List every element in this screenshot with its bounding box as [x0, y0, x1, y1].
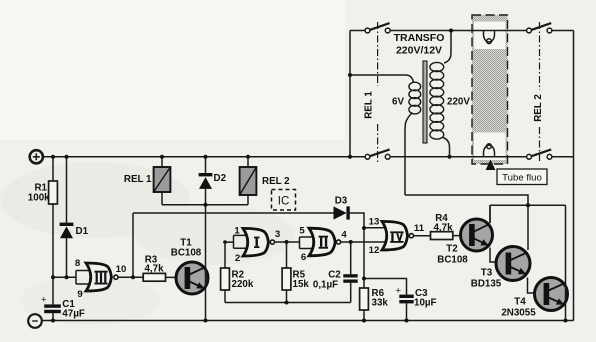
node 220V bottom junction	[448, 155, 452, 159]
svg-text:10: 10	[116, 264, 127, 275]
svg-text:TRANSFO: TRANSFO	[394, 32, 445, 44]
transformer 6V primary winding	[350, 75, 421, 195]
svg-text:10µF: 10µF	[414, 298, 437, 309]
node rail R1	[51, 155, 55, 159]
NOR gate III	[86, 263, 118, 291]
label T1	[171, 238, 202, 259]
fluorescent tube body	[472, 15, 508, 164]
wire gate II output to gate IV pin12	[341, 241, 387, 243]
node mains left vertical top of 6V	[348, 73, 352, 77]
resistor R4	[414, 232, 470, 240]
node C3 bottom rail	[405, 319, 409, 323]
node R5 bottom	[285, 301, 289, 305]
resistor R5	[282, 268, 291, 290]
wire D3 cathode to pin13 node	[350, 213, 387, 288]
svg-text:9: 9	[77, 289, 82, 300]
wire collector bus	[490, 205, 566, 223]
svg-text:33k: 33k	[372, 298, 389, 309]
node gate III input / R1 line	[51, 275, 55, 279]
resistor R2	[221, 268, 230, 290]
node collector bus / T3	[526, 203, 530, 207]
wire oscillator bottom	[225, 302, 351, 304]
diode D1	[60, 223, 74, 239]
node R6 bottom rail	[362, 319, 366, 323]
node gate III output	[131, 275, 135, 279]
wire gate I output to gate II input	[275, 237, 312, 249]
REL2 linkage dash-dot line	[539, 22, 541, 162]
svg-text:REL 2: REL 2	[533, 94, 544, 122]
svg-text:0,1µF: 0,1µF	[313, 280, 338, 291]
wire gate III input feed	[53, 271, 90, 285]
wire 0V bottom rail	[42, 320, 574, 322]
svg-text:2: 2	[235, 253, 240, 264]
svg-text:13: 13	[369, 217, 380, 228]
diode D2	[199, 157, 213, 205]
label T4	[501, 297, 536, 319]
label C2 value	[313, 270, 341, 291]
svg-text:T4: T4	[514, 297, 526, 308]
transformer TR1 core	[423, 61, 427, 143]
tube bottom filament	[484, 144, 495, 157]
wire relay coil bottoms	[162, 204, 248, 206]
node rail C1	[51, 319, 55, 323]
switch REL2 bottom contact	[527, 149, 552, 159]
label TRANSFO	[394, 32, 445, 57]
node gate III input / D1 line	[65, 275, 69, 279]
resistor R5 branch	[286, 242, 288, 302]
capacitor C1	[41, 295, 61, 314]
svg-text:6: 6	[301, 252, 306, 263]
svg-text:Tube fluo: Tube fluo	[502, 172, 542, 183]
switch REL1 bottom contact	[365, 149, 390, 159]
svg-text:BD135: BD135	[471, 279, 502, 290]
resistor R6	[360, 288, 369, 321]
tube pointer arrow	[486, 160, 496, 171]
resistor R1	[49, 181, 58, 204]
wire T1-base node to D3	[133, 212, 334, 214]
wire gate I input feed	[225, 235, 246, 248]
NOR gate II	[309, 228, 341, 256]
relay coil REL2	[240, 157, 257, 205]
REL1 linkage dash-dot line	[377, 22, 379, 162]
svg-text:220k: 220k	[232, 279, 254, 290]
node gate II output / C2	[349, 240, 353, 244]
node rail D2	[204, 155, 208, 159]
capacitor C2 branch	[350, 242, 352, 303]
terminal -	[28, 314, 42, 328]
node gate I output / R5	[285, 240, 289, 244]
label T2	[437, 244, 468, 266]
node R6 / C3 wire	[362, 277, 366, 281]
wire left mains vertical	[349, 31, 351, 157]
node rail REL1	[160, 155, 164, 159]
transistor T2	[461, 205, 499, 262]
svg-text:D1: D1	[76, 226, 89, 237]
svg-text:BC108: BC108	[171, 248, 202, 259]
wire + supply rail	[43, 156, 574, 158]
svg-text:47µF: 47µF	[62, 309, 85, 320]
svg-text:11: 11	[414, 223, 425, 234]
NOR gate I	[243, 228, 275, 256]
label R1 value	[28, 183, 50, 204]
svg-text:+: +	[395, 285, 401, 296]
diode D1 branch wires	[66, 157, 68, 277]
svg-text:+: +	[41, 295, 47, 306]
diode D3	[334, 206, 350, 219]
node pin13	[362, 226, 366, 230]
svg-text:4,7k: 4,7k	[433, 223, 453, 234]
svg-text:2N3055: 2N3055	[501, 308, 536, 319]
svg-text:4,7k: 4,7k	[144, 264, 164, 275]
Tube fluo label box	[497, 169, 547, 185]
node rail D1	[65, 155, 69, 159]
node rail mains-left	[348, 155, 352, 159]
wire R6 node to C3	[364, 279, 407, 321]
wire top mains rail	[350, 30, 574, 32]
transformer 220V secondary winding	[430, 31, 451, 157]
svg-text:5: 5	[299, 226, 305, 237]
svg-text:D2: D2	[214, 173, 227, 184]
transistor T4	[535, 205, 568, 320]
label R3 value	[144, 255, 164, 275]
label C3 value	[414, 288, 437, 309]
resistor R1 branch wires	[52, 157, 54, 321]
svg-text:220V/12V: 220V/12V	[396, 45, 442, 57]
label R4 value	[433, 213, 453, 234]
terminal +	[30, 150, 43, 163]
switch REL1 top contact	[365, 23, 390, 33]
resistor R2 branch	[224, 242, 226, 302]
svg-text:3: 3	[275, 229, 280, 240]
wire gate III output node	[118, 213, 143, 277]
svg-text:D3: D3	[335, 196, 348, 207]
IC dashed box	[272, 190, 296, 211]
svg-text:12: 12	[369, 245, 380, 256]
label R2 value	[232, 270, 254, 291]
capacitor C3	[395, 285, 413, 303]
label R6 value	[372, 288, 389, 309]
resistor R3	[133, 273, 186, 281]
node rail REL2	[246, 155, 250, 159]
svg-text:15k: 15k	[293, 279, 310, 290]
label T3	[471, 268, 502, 290]
svg-text:1: 1	[234, 226, 240, 237]
svg-text:8: 8	[75, 258, 81, 269]
svg-text:IC: IC	[278, 195, 290, 207]
svg-text:6V: 6V	[392, 97, 404, 108]
transistor T3	[496, 247, 537, 294]
svg-text:T3: T3	[481, 268, 493, 279]
node coil bottoms / D2 / T1 collector	[204, 203, 208, 207]
wire right vertical	[573, 31, 575, 321]
label C1 value	[62, 299, 85, 320]
NOR gate IV	[382, 221, 414, 250]
svg-text:REL 1: REL 1	[364, 91, 375, 119]
capacitor C2	[343, 274, 357, 283]
label R5 value	[293, 270, 310, 291]
switch REL2 top contact	[527, 23, 552, 33]
svg-text:BC108: BC108	[437, 255, 468, 266]
relay coil REL1	[154, 157, 171, 205]
node T1 emitter / rail	[204, 319, 208, 323]
tube top filament	[484, 31, 495, 44]
svg-text:REL 2: REL 2	[262, 176, 290, 187]
node T4 emitter rail	[564, 319, 568, 323]
svg-text:T2: T2	[446, 244, 458, 255]
svg-text:REL 1: REL 1	[124, 174, 152, 185]
wire 6V-bottom to collector bus	[405, 195, 528, 250]
node 220V top junction	[449, 29, 453, 33]
svg-text:100k: 100k	[28, 193, 50, 204]
node gate I input / R2	[223, 240, 227, 244]
svg-text:4: 4	[341, 230, 347, 241]
transistor T1	[176, 205, 208, 321]
svg-text:220V: 220V	[447, 97, 470, 108]
